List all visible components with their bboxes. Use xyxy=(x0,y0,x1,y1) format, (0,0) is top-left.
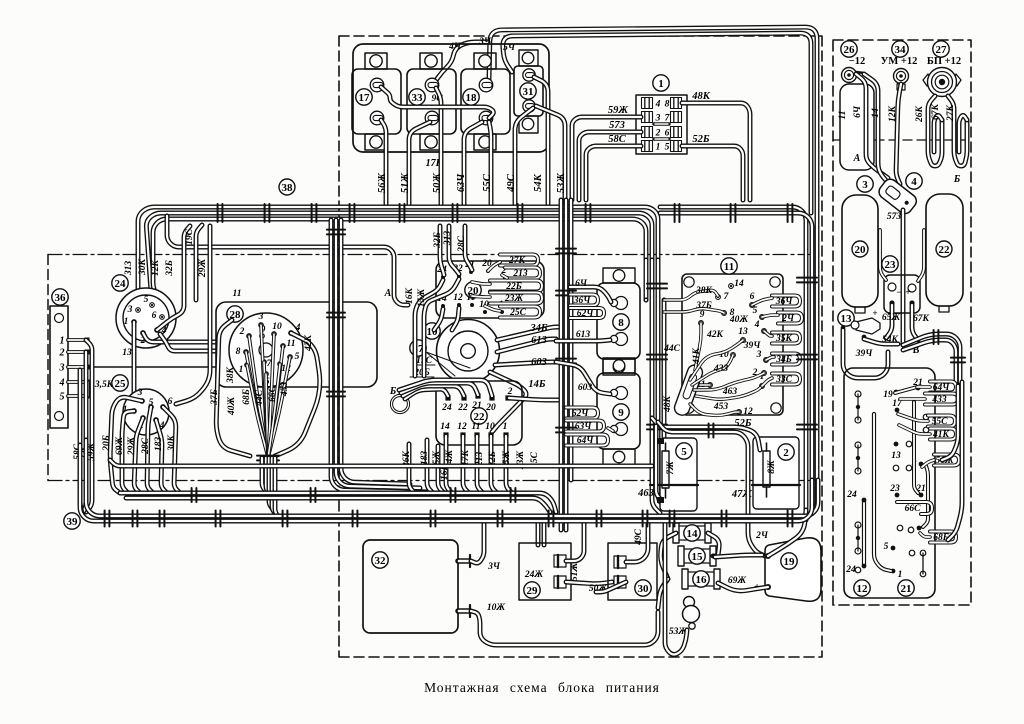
svg-text:5: 5 xyxy=(144,295,149,305)
svg-text:38К: 38К xyxy=(226,366,236,384)
relay (18) contact xyxy=(479,111,493,125)
wire 20Б from socket 25 pin 3 xyxy=(110,397,142,493)
svg-text:39Ч: 39Ч xyxy=(743,341,762,351)
right panel inner dashed divider xyxy=(833,139,971,141)
svg-text:55С: 55С xyxy=(932,417,949,427)
svg-text:5: 5 xyxy=(60,392,65,403)
svg-text:16К: 16К xyxy=(405,287,415,304)
ref label (12) xyxy=(854,580,870,596)
wires from block 23 xyxy=(886,305,892,338)
connector (36) lug 1 xyxy=(68,338,86,342)
strip 20 hairpin 213 xyxy=(505,268,540,279)
wire 54К xyxy=(534,77,548,204)
svg-text:41К: 41К xyxy=(692,347,702,365)
svg-text:613: 613 xyxy=(531,335,547,346)
ref label (22) xyxy=(471,408,487,424)
svg-text:9: 9 xyxy=(700,310,705,320)
hairpin loop Б wires 26К 67К 27К xyxy=(928,96,942,166)
bracket (29) xyxy=(519,543,571,600)
wire 42К big curve xyxy=(275,333,320,456)
svg-text:А: А xyxy=(853,153,861,164)
svg-text:1: 1 xyxy=(124,317,129,327)
svg-text:5: 5 xyxy=(665,143,670,153)
svg-text:УМ +12: УМ +12 xyxy=(881,56,918,67)
connector (1) terminal pair 3/7 xyxy=(642,112,653,123)
ref label (4) xyxy=(906,173,922,189)
lacing xyxy=(788,204,793,222)
wires 26К 183 15Ж down-left of strip22 xyxy=(409,444,415,493)
wire spool 15 to speaker minus xyxy=(715,555,762,557)
transformer leads 34Б 613 xyxy=(497,327,560,340)
svg-text:5: 5 xyxy=(295,352,300,362)
svg-text:69Ж: 69Ж xyxy=(115,437,125,456)
svg-text:3: 3 xyxy=(655,114,661,124)
svg-text:12: 12 xyxy=(743,407,753,417)
svg-text:27К: 27К xyxy=(508,256,526,266)
ref label (33) xyxy=(409,89,425,105)
lacing xyxy=(518,204,523,222)
svg-text:63Ч: 63Ч xyxy=(575,422,593,432)
svg-text:36Ч: 36Ч xyxy=(775,297,794,307)
svg-text:2: 2 xyxy=(239,327,245,337)
svg-text:Монтажная схема блока питания: Монтажная схема блока питания xyxy=(424,680,660,695)
wire 573 to connector 1 xyxy=(579,132,641,200)
svg-text:30К: 30К xyxy=(167,434,177,452)
wire 53Ж xyxy=(665,521,687,655)
wire 55С xyxy=(489,122,491,204)
wire 3Ч top jumper xyxy=(489,27,817,515)
wires from socket 24 pins 2,4 right staples xyxy=(143,333,216,342)
svg-text:42К: 42К xyxy=(304,334,314,352)
svg-text:4: 4 xyxy=(655,100,661,110)
svg-text:38: 38 xyxy=(282,182,294,194)
ref label (32) xyxy=(372,552,388,568)
svg-text:69Ж: 69Ж xyxy=(728,576,747,586)
vertical harness V1 xyxy=(644,260,649,300)
svg-text:2Ч: 2Ч xyxy=(781,314,795,324)
svg-text:6: 6 xyxy=(152,311,157,321)
svg-text:40Ж: 40Ж xyxy=(227,397,237,417)
loudspeaker (19) xyxy=(765,538,821,601)
svg-text:БП +12: БП +12 xyxy=(927,56,961,67)
svg-text:62Ч: 62Ч xyxy=(577,309,595,319)
capacitor can (20) xyxy=(842,195,878,307)
svg-text:6Ч: 6Ч xyxy=(575,279,588,289)
connector (36) lug 5 xyxy=(68,394,86,398)
svg-text:4: 4 xyxy=(911,176,917,188)
svg-text:14: 14 xyxy=(734,279,744,289)
svg-text:11: 11 xyxy=(287,339,296,349)
svg-text:23Ж: 23Ж xyxy=(504,294,524,304)
wires into capacitor 9 xyxy=(556,362,610,394)
svg-text:1: 1 xyxy=(60,336,65,347)
svg-text:19: 19 xyxy=(784,556,796,568)
svg-text:33: 33 xyxy=(412,92,424,104)
connector (1) terminal pair 1/5 xyxy=(642,141,653,152)
svg-text:18: 18 xyxy=(466,92,478,104)
svg-text:3: 3 xyxy=(862,179,868,191)
jack -12 xyxy=(842,68,857,83)
microphone jack xyxy=(684,597,695,608)
connector (1) jumper bars xyxy=(654,124,669,139)
grommet Б xyxy=(392,396,409,413)
svg-text:1: 1 xyxy=(898,570,903,580)
lacing xyxy=(400,204,405,222)
svg-text:8: 8 xyxy=(236,347,241,357)
svg-text:40Ж: 40Ж xyxy=(729,315,749,325)
plate 11 hairpin 2Ч xyxy=(778,313,802,324)
svg-text:1: 1 xyxy=(656,143,661,153)
wire 613 to capacitor 8 xyxy=(556,340,610,341)
svg-text:11: 11 xyxy=(724,261,734,273)
ref label (28) xyxy=(227,306,243,322)
svg-text:30К: 30К xyxy=(138,258,148,276)
lacing at knot xyxy=(257,456,279,461)
svg-text:35К: 35К xyxy=(775,334,793,344)
wires strip22 top pins curling to grommet Б xyxy=(405,389,448,399)
plate 11 hairpin 33С xyxy=(772,374,800,385)
ref label (8) xyxy=(613,314,629,330)
wire 59Ж to connector 1 xyxy=(572,117,641,200)
wire 63Ч xyxy=(464,122,482,204)
left panel dashed outline xyxy=(47,255,49,481)
choke (15) xyxy=(681,549,713,563)
box 32 lower terminal xyxy=(458,608,470,614)
standoff A xyxy=(840,84,874,170)
svg-text:6: 6 xyxy=(665,129,670,139)
svg-text:573: 573 xyxy=(609,120,625,131)
svg-text:34Б: 34Б xyxy=(529,323,548,334)
box 32 upper terminal xyxy=(458,558,470,564)
svg-text:15: 15 xyxy=(692,551,704,563)
choke (14) xyxy=(676,526,708,540)
svg-text:13: 13 xyxy=(122,348,132,358)
tube socket (28) xyxy=(229,313,303,387)
svg-text:22: 22 xyxy=(939,244,951,256)
svg-text:10Ж: 10Ж xyxy=(487,603,506,613)
svg-text:24: 24 xyxy=(441,403,452,413)
svg-text:63Ч: 63Ч xyxy=(456,173,467,193)
wires from strip20 bottom pins down xyxy=(434,309,443,330)
right panel dashed outline xyxy=(833,40,971,605)
right panel hairpin 41К xyxy=(930,429,956,440)
svg-text:3: 3 xyxy=(258,312,264,322)
wire 39Ч loop xyxy=(843,330,888,378)
wire 9С relay link xyxy=(381,87,493,118)
svg-text:9: 9 xyxy=(618,407,624,419)
lacing upper run xyxy=(709,424,714,438)
svg-text:Б: Б xyxy=(389,386,397,397)
ref label (38) xyxy=(279,179,295,195)
diode block (4) xyxy=(876,176,919,216)
wire from pin 2 strip22 to V2 xyxy=(509,398,558,400)
svg-text:44С: 44С xyxy=(255,389,265,407)
resistor block (2) xyxy=(753,437,799,509)
ref label (27) xyxy=(933,41,949,57)
svg-text:24: 24 xyxy=(845,565,856,575)
svg-text:38К: 38К xyxy=(695,286,713,296)
svg-text:+: + xyxy=(872,308,877,318)
lacing xyxy=(453,204,458,222)
svg-text:44С: 44С xyxy=(663,344,681,354)
wire 50Ж xyxy=(436,88,441,204)
svg-text:11: 11 xyxy=(472,422,481,432)
ref label (1) xyxy=(653,75,669,91)
svg-text:3Ч: 3Ч xyxy=(478,37,492,47)
right panel hairpin 64Ч xyxy=(930,382,956,393)
wire 16К run А xyxy=(167,216,408,305)
plate 11 mounting hole xyxy=(771,403,781,413)
plate 11 hairpin feed wires xyxy=(752,298,772,305)
speaker minus terminal xyxy=(765,553,771,559)
lacing xyxy=(350,204,355,222)
transformer (10) xyxy=(437,320,500,383)
terminal board xyxy=(844,368,935,598)
ref label (15) xyxy=(689,548,705,564)
connector (36) lug 4 xyxy=(68,380,86,384)
ref label (10) xyxy=(424,323,440,339)
wire 48К from connector 1 xyxy=(682,103,750,200)
hairpin 63Ч xyxy=(566,421,604,432)
svg-text:11: 11 xyxy=(233,289,242,299)
wires chokes loop xyxy=(661,533,676,579)
svg-text:8: 8 xyxy=(665,100,670,110)
svg-text:13: 13 xyxy=(738,327,748,337)
lacing xyxy=(265,204,270,222)
svg-text:28С: 28С xyxy=(141,437,151,455)
svg-text:19С: 19С xyxy=(185,228,195,245)
tube socket (25) xyxy=(123,389,169,435)
svg-text:50Ж: 50Ж xyxy=(432,173,443,194)
ref label (22) xyxy=(936,241,952,257)
svg-text:67К: 67К xyxy=(913,314,930,324)
fuse block (31) contact xyxy=(523,69,535,81)
svg-text:453: 453 xyxy=(280,382,290,398)
capacitor (9) terminal xyxy=(615,387,628,400)
ref label (37) xyxy=(410,340,426,356)
svg-text:26К: 26К xyxy=(915,105,925,123)
svg-text:34Б: 34Б xyxy=(775,355,792,365)
bracket (30) xyxy=(608,543,657,600)
wires from harness into block 29 xyxy=(536,521,541,545)
svg-text:8Ж: 8Ж xyxy=(767,460,777,474)
wire 47Ж vertical xyxy=(658,422,765,556)
svg-text:2: 2 xyxy=(655,129,661,139)
relay (18) body xyxy=(474,53,496,69)
svg-text:20Б: 20Б xyxy=(102,435,112,452)
svg-text:56Ж: 56Ж xyxy=(377,173,388,194)
svg-text:8: 8 xyxy=(618,317,624,329)
hairpin 66С xyxy=(897,502,932,514)
svg-text:28С: 28С xyxy=(457,235,467,253)
capacitor (8) terminal xyxy=(615,297,628,310)
board left column pins xyxy=(855,391,861,397)
wire 51Ж from 29 xyxy=(566,520,584,561)
strip 20 hairpin 22Б xyxy=(490,281,542,292)
svg-text:4: 4 xyxy=(295,323,301,333)
connector (36) lug 3 xyxy=(68,365,86,369)
svg-text:21: 21 xyxy=(471,401,482,411)
svg-text:573: 573 xyxy=(887,212,902,222)
connector (36) top hole xyxy=(55,314,64,323)
svg-text:453: 453 xyxy=(713,402,729,412)
svg-text:55С: 55С xyxy=(482,173,493,192)
wire from lug 3 long horizontal xyxy=(86,366,216,368)
wire 13 from pin 1 to socket 25 xyxy=(132,322,137,408)
svg-text:66С: 66С xyxy=(268,385,278,402)
svg-text:183: 183 xyxy=(420,451,430,466)
svg-text:42К: 42К xyxy=(706,330,724,340)
relay (17) contact xyxy=(370,78,384,92)
wires 16К 15Ж down from strip 20 xyxy=(415,280,443,376)
lacing xyxy=(312,204,317,222)
relay (33) contact xyxy=(425,78,439,92)
svg-text:3,5К: 3,5К xyxy=(94,380,114,390)
svg-text:+: + xyxy=(905,287,910,297)
svg-text:13: 13 xyxy=(891,451,901,461)
capacitor (9) body xyxy=(603,358,635,373)
ref label (21) xyxy=(898,580,914,596)
svg-text:3: 3 xyxy=(137,388,143,398)
svg-text:17: 17 xyxy=(359,92,371,104)
wire 50Ж from 30 xyxy=(596,582,626,592)
svg-text:64Ч: 64Ч xyxy=(577,436,595,446)
board vertical wire 9-9 xyxy=(923,466,928,527)
svg-text:12К: 12К xyxy=(888,105,898,122)
wires down from strip 22 bottom to run B xyxy=(446,436,452,493)
svg-text:5: 5 xyxy=(753,306,758,316)
ref label (36) xyxy=(52,289,68,305)
strip 20 hairpin 23Ж xyxy=(490,293,542,304)
svg-text:5: 5 xyxy=(681,446,687,458)
wire 56Ж xyxy=(381,120,386,204)
ref label (31) xyxy=(520,83,536,99)
connector (36) bottom hole xyxy=(55,412,64,421)
svg-text:4: 4 xyxy=(59,378,65,389)
tube socket (24) xyxy=(116,288,176,348)
wire 6Ч from jack 26 xyxy=(856,74,888,178)
svg-text:37Б: 37Б xyxy=(210,389,220,406)
connector (1) terminal pair 2/6 xyxy=(642,127,653,138)
svg-text:14: 14 xyxy=(687,528,699,540)
svg-text:24: 24 xyxy=(115,278,127,290)
wire 19С stub xyxy=(196,225,202,300)
vertical harness V2 xyxy=(559,200,564,530)
lacing xyxy=(675,204,680,222)
socket (28) mounting plate xyxy=(216,302,377,387)
svg-text:41К: 41К xyxy=(932,430,950,440)
leader lines 37 xyxy=(426,352,470,376)
svg-text:21: 21 xyxy=(901,583,912,595)
svg-text:62Ч: 62Ч xyxy=(572,409,590,419)
svg-text:13: 13 xyxy=(841,313,853,325)
wires 58С 33С 59Ж from connector 36 xyxy=(86,340,92,512)
plate 11 interior wires xyxy=(664,290,718,300)
wire 49С xyxy=(515,108,533,204)
plate 11 cable clamp xyxy=(673,363,705,417)
svg-text:32: 32 xyxy=(375,555,387,567)
svg-text:12: 12 xyxy=(453,293,463,303)
speaker plus terminal xyxy=(765,584,771,590)
svg-text:51Ж: 51Ж xyxy=(570,563,580,582)
svg-text:−: − xyxy=(896,287,901,297)
jack БП+12 xyxy=(923,74,961,86)
svg-text:67К: 67К xyxy=(931,103,941,120)
ref label (26) xyxy=(841,41,857,57)
wire 37Б down left side xyxy=(216,320,250,456)
chassis fold dash-dot line upper xyxy=(48,254,820,256)
wire 4Ч stub xyxy=(434,42,488,83)
svg-text:36Ч: 36Ч xyxy=(573,296,592,306)
svg-text:11: 11 xyxy=(838,111,848,120)
svg-text:1: 1 xyxy=(658,78,664,90)
wire 29Ж down from harness xyxy=(176,226,210,404)
svg-text:14Б: 14Б xyxy=(528,379,546,390)
svg-text:213: 213 xyxy=(512,269,528,279)
flag feeder wires on right xyxy=(948,382,962,540)
right panel hairpin 56Ж xyxy=(934,455,959,466)
wire bundle from В going right xyxy=(903,334,960,382)
ref label (20) xyxy=(465,282,481,298)
svg-text:22: 22 xyxy=(457,403,468,413)
capacitor (9) terminal xyxy=(615,423,628,436)
svg-text:20: 20 xyxy=(485,403,496,413)
ref label (11) xyxy=(721,258,737,274)
svg-text:32Б: 32Б xyxy=(433,232,443,249)
harness right run to corner xyxy=(660,207,806,520)
svg-text:31: 31 xyxy=(523,86,534,98)
svg-text:23: 23 xyxy=(889,484,900,494)
svg-text:26: 26 xyxy=(844,44,856,56)
fan wires from socket 28 to knot xyxy=(261,325,268,454)
terminal strip (20) xyxy=(436,261,544,318)
svg-text:65Ж: 65Ж xyxy=(882,313,901,323)
svg-text:1: 1 xyxy=(239,365,244,375)
svg-text:12: 12 xyxy=(457,422,467,432)
svg-text:48К: 48К xyxy=(691,91,711,102)
svg-text:6: 6 xyxy=(750,292,755,302)
ref label (16) xyxy=(693,571,709,587)
board link 553-574 xyxy=(922,553,924,574)
svg-text:463: 463 xyxy=(637,488,654,499)
board jumper 17-1 xyxy=(874,414,891,571)
wire 51Ж xyxy=(409,122,430,204)
svg-text:68Б: 68Б xyxy=(242,389,252,405)
run B wire xyxy=(120,493,556,512)
ref label (14) xyxy=(684,525,700,541)
filter box (32) xyxy=(363,540,458,633)
plate 11 mounting hole xyxy=(684,277,694,287)
wire 52Б from connector 1 xyxy=(682,146,743,200)
lacing xyxy=(218,204,223,222)
ref label (29) xyxy=(524,582,540,598)
svg-text:10: 10 xyxy=(485,422,495,432)
svg-text:37Б: 37Б xyxy=(695,301,712,311)
wire 10Ж from box 32 xyxy=(471,611,658,645)
wires down from socket 25 to run B xyxy=(134,418,143,493)
ref label (2) xyxy=(778,444,794,460)
knot bundle down to runs xyxy=(262,458,268,493)
svg-text:603: 603 xyxy=(578,383,593,393)
svg-text:27К: 27К xyxy=(946,104,956,122)
chassis fold dash-dot line lower xyxy=(48,480,820,482)
wire 463 down left of block 5 xyxy=(656,426,661,500)
svg-text:29Ж: 29Ж xyxy=(198,259,208,279)
svg-text:25: 25 xyxy=(115,378,127,390)
svg-text:24Ж: 24Ж xyxy=(524,570,544,580)
ref label (3) xyxy=(857,176,873,192)
choke (16) xyxy=(685,572,717,586)
